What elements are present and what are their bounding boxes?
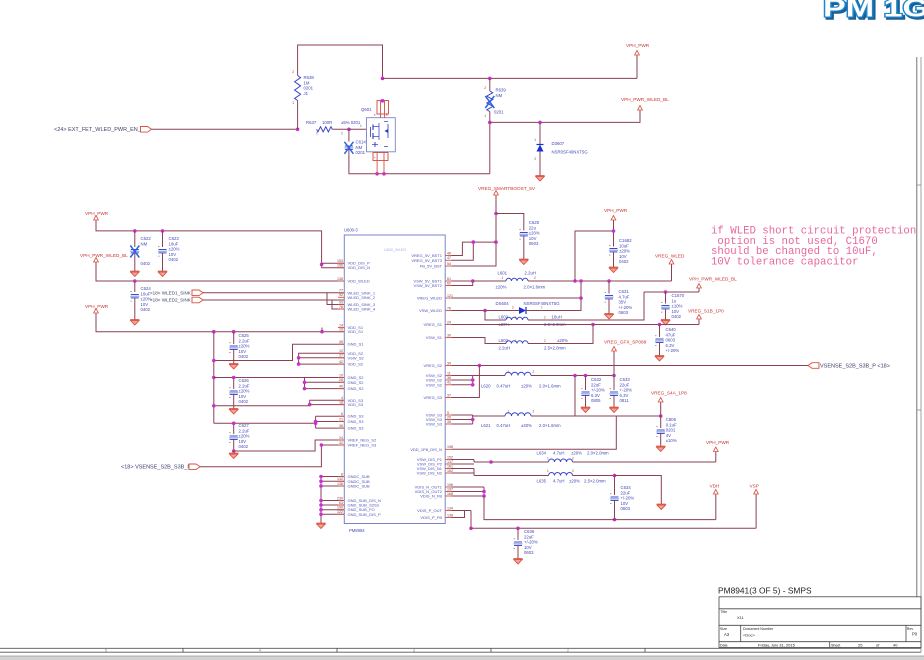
svg-text:12: 12 [339, 349, 343, 353]
svg-text:WLED_SINK_4: WLED_SINK_4 [348, 307, 376, 312]
wire VREG_S2 rail to VSENSE_S2B_S3B_P [452, 365, 809, 367]
wire S3 output rail 1P8 [575, 415, 661, 417]
junction [133, 279, 137, 283]
power VPH_PWR left1 [85, 211, 109, 222]
label C636 [524, 529, 538, 555]
wire VDD_DIS_P link [322, 262, 345, 264]
svg-text:1: 1 [502, 276, 504, 280]
port EXT_FET_WLED_PWR_EN_N [141, 127, 152, 133]
svg-text:VDH: VDH [710, 484, 720, 489]
junction [303, 387, 307, 391]
svg-text:C632: C632 [591, 377, 602, 382]
pin 18 VDD_S3 [338, 400, 364, 407]
svg-text:54: 54 [447, 262, 451, 266]
svg-text:2.2uH: 2.2uH [499, 346, 510, 351]
wire C627 to junction [233, 440, 235, 452]
inductor L620 [505, 372, 531, 375]
wire L635 output [573, 475, 615, 477]
svg-text:25: 25 [858, 643, 863, 648]
pin 136 VDD_WLED [337, 277, 370, 284]
svg-text:10V: 10V [239, 349, 247, 354]
svg-text:NM: NM [356, 145, 363, 150]
diode D3607 [537, 145, 544, 152]
inductor L621 [505, 413, 531, 416]
resistor R637 [317, 127, 333, 132]
svg-text:VREG_S1: VREG_S1 [424, 322, 443, 327]
svg-text:100R: 100R [322, 120, 332, 125]
pin 10 GND_S2 [338, 373, 364, 380]
svg-text:Friday, July 31, 2015: Friday, July 31, 2015 [758, 643, 796, 648]
svg-text:±20%: ±20% [239, 344, 250, 349]
label Q601 pad pin numbers [374, 113, 388, 160]
svg-text:NSR0SF40NXT5G: NSR0SF40NXT5G [552, 150, 589, 155]
junction [232, 376, 236, 380]
svg-text:4V: 4V [666, 433, 671, 438]
power VPH_PWR_WLED_BL right [689, 277, 737, 291]
junction [303, 381, 307, 385]
svg-text:L634: L634 [537, 451, 547, 456]
svg-text:GND_S3: GND_S3 [348, 414, 365, 419]
capacitor C806 [656, 427, 665, 437]
svg-text:L603: L603 [499, 338, 509, 343]
note WLED short circuit [711, 226, 916, 269]
wire D3607 cathode to ground [539, 152, 541, 175]
svg-text:C631: C631 [619, 289, 630, 294]
pin 36 GND_S3 [338, 424, 364, 431]
svg-text:27: 27 [339, 354, 343, 358]
wire 1P8 down to DIS [452, 416, 617, 449]
svg-text:U600-3: U600-3 [344, 228, 358, 233]
svg-text:C622: C622 [141, 236, 152, 241]
svg-text:VSW_WLED: VSW_WLED [419, 308, 442, 313]
svg-text:Sheet: Sheet [831, 644, 840, 648]
svg-text:±20%: ±20% [521, 423, 532, 428]
svg-text:+/-20%: +/-20% [621, 496, 635, 501]
ground L635 [657, 503, 666, 510]
svg-text:10V: 10V [529, 236, 537, 241]
svg-text:2: 2 [533, 370, 535, 374]
wire arrow stem [698, 290, 700, 292]
svg-text:R637: R637 [306, 120, 317, 125]
pin 47 VREG_5V_BST3 [411, 256, 451, 263]
pin 76 VSW_WLED [419, 306, 451, 313]
wire C626 to ground [233, 395, 235, 408]
wire C624 lead [134, 281, 136, 292]
C622 not mounted X [130, 246, 139, 258]
svg-text:4: 4 [259, 649, 261, 653]
label C632 [591, 377, 605, 403]
pin 54 FB_5V_BST [420, 262, 452, 269]
wire GND_S3 stubs [316, 416, 345, 428]
svg-text:138: 138 [447, 513, 453, 517]
inductor L635 [549, 473, 573, 476]
wire to L620 [473, 375, 505, 377]
svg-text:0402: 0402 [141, 307, 151, 312]
wire VREG_WLED arrow stem [671, 266, 673, 281]
svg-text:42: 42 [339, 360, 343, 364]
svg-text:X11: X11 [737, 615, 745, 620]
svg-text:PM 1G: PM 1G [823, 0, 924, 23]
svg-text:Size: Size [720, 627, 727, 631]
svg-text:0201: 0201 [494, 110, 504, 115]
wire L620 output [531, 375, 614, 377]
ground C627 [229, 452, 238, 459]
R639 not mounted X [485, 96, 494, 108]
svg-text:VDIS_P_FB: VDIS_P_FB [420, 515, 442, 520]
junction [488, 77, 492, 81]
ground C631 [604, 312, 613, 319]
wire GND_S2 row [214, 378, 344, 389]
wire C1670 lead [665, 292, 667, 304]
wire GND_S1 to S2 rows [214, 344, 344, 360]
svg-text:Document Number: Document Number [743, 627, 774, 631]
wire VREG_5V_BST3 link [452, 242, 474, 260]
svg-text:4.7uF: 4.7uF [619, 294, 630, 299]
wire VDH rail [484, 496, 716, 520]
svg-text:18: 18 [339, 400, 343, 404]
pin 168 VDIS_N_FB [420, 492, 453, 499]
svg-text:4.7uH: 4.7uH [553, 479, 564, 484]
svg-text:<Doc>: <Doc> [743, 633, 755, 638]
svg-text:1: 1 [508, 370, 510, 374]
svg-text:35: 35 [447, 420, 451, 424]
wire C640 to ground [659, 343, 661, 355]
ground C806 [656, 445, 665, 452]
junction [573, 374, 577, 378]
wire VDD_S3 row [214, 400, 344, 406]
svg-text:2.5×2.0mm: 2.5×2.0mm [584, 479, 606, 484]
svg-text:76: 76 [447, 306, 451, 310]
junction [658, 323, 662, 327]
wire VREG_5V_BST1 link [452, 242, 497, 255]
sheet right border outer line [920, 57, 922, 652]
pin 162 VSW_DIS_N2 [417, 469, 453, 476]
pin 41 VSW_S2 [426, 381, 452, 388]
capacitor C628 [519, 229, 528, 239]
junction [612, 229, 616, 233]
junction [375, 172, 379, 176]
svg-text:VREG_S2: VREG_S2 [424, 363, 443, 368]
Q601 drain pad rect [377, 101, 389, 115]
svg-text:+/-20%: +/-20% [619, 305, 633, 310]
pin 63 GND_SUB_S2S3 [338, 501, 380, 508]
svg-text:<24> EXT_FET_WLED_PWR_EN_N: <24> EXT_FET_WLED_PWR_EN_N [54, 127, 145, 133]
port VSENSE_S2B_S3B_N [189, 464, 200, 470]
svg-text:VDIS_P_OUT: VDIS_P_OUT [417, 508, 442, 513]
wire VSW_S1 to L603 [452, 338, 507, 344]
wire C632 lead [585, 376, 587, 391]
svg-text:L621: L621 [481, 423, 491, 428]
capacitor C633 [610, 389, 619, 399]
svg-text:±10%: ±10% [672, 304, 683, 309]
svg-text:+/-20%: +/-20% [591, 388, 605, 393]
power VPH_PWR_WLED_BL top [621, 97, 669, 112]
ground C622 [130, 270, 139, 277]
svg-text:+/-20%: +/-20% [666, 348, 680, 353]
svg-text:0603: 0603 [524, 550, 534, 555]
label C622 [141, 236, 152, 246]
junction [319, 484, 323, 488]
svg-text:22uF: 22uF [591, 382, 601, 387]
junction [472, 240, 476, 244]
svg-text:1: 1 [547, 469, 549, 473]
svg-text:±20%: ±20% [239, 389, 250, 394]
border tick [490, 648, 492, 652]
wire VREG_GFX stem [613, 353, 615, 376]
junction [319, 508, 323, 512]
wire R637 right [332, 128, 349, 130]
svg-text:GND_S2: GND_S2 [348, 386, 365, 391]
svg-text:2.0×2.0mm: 2.0×2.0mm [587, 451, 609, 456]
svg-text:30: 30 [447, 333, 451, 337]
junction [212, 359, 216, 363]
pin 152 VSW_DIS_P1 [417, 455, 453, 462]
label C623 [169, 236, 180, 262]
svg-text:10V: 10V [239, 394, 247, 399]
svg-text:+/-20%: +/-20% [524, 540, 538, 545]
junction [573, 279, 577, 283]
wire C624 to ground [134, 298, 136, 318]
power VPH_PWR left2 [85, 304, 109, 315]
junction [584, 374, 588, 378]
wire C623 lead [162, 231, 164, 247]
label L620 [481, 370, 561, 389]
svg-text:VPH_PWR: VPH_PWR [626, 43, 650, 48]
svg-text:10uH: 10uH [552, 315, 562, 320]
svg-text:0402: 0402 [672, 314, 682, 319]
wire VSW_S3 group [452, 415, 473, 424]
svg-text:PM8994: PM8994 [349, 528, 365, 533]
junction [478, 364, 482, 368]
svg-text:46: 46 [447, 251, 451, 255]
svg-text:39: 39 [447, 361, 451, 365]
wire L621 output [531, 415, 575, 417]
wire VDIS_P group [452, 511, 472, 529]
IC U600-3 body [344, 235, 445, 524]
pin 42 VDD_S2 [338, 360, 364, 367]
svg-text:92: 92 [339, 293, 343, 297]
svg-text:2.0×1.6mm: 2.0×1.6mm [539, 423, 561, 428]
label C626 [239, 378, 250, 404]
pin 230 GND_SUB_DIS_N [337, 496, 381, 503]
svg-text:C628: C628 [529, 220, 540, 225]
svg-text:93: 93 [339, 300, 343, 304]
pin 29 VREG_S1 [424, 320, 452, 327]
svg-text:10V: 10V [169, 252, 177, 257]
svg-text:2: 2 [484, 86, 486, 90]
wire VSW_5V_BST2 join [452, 281, 473, 286]
wire VSENSE_N to VREF_NEG_S3 [200, 445, 344, 467]
ground GND_SUB [316, 522, 325, 529]
svg-text:DS604: DS604 [496, 301, 510, 306]
svg-text:0603: 0603 [529, 241, 539, 246]
svg-text:GND_S2: GND_S2 [348, 380, 365, 385]
label R639 [484, 86, 506, 118]
svg-text:Q601: Q601 [361, 107, 372, 112]
svg-text:D3607: D3607 [552, 141, 565, 146]
pin 32 VREF_NEG_S3 [338, 441, 377, 448]
svg-text:32: 32 [339, 441, 343, 445]
svg-text:22uF: 22uF [620, 382, 630, 387]
pin 137 VSW_DIS_P2 [417, 460, 453, 467]
svg-text:2: 2 [292, 70, 294, 74]
svg-text:5: 5 [447, 411, 449, 415]
svg-text:±20%: ±20% [557, 338, 568, 343]
svg-text:10uF: 10uF [169, 241, 179, 246]
svg-text:VREG_WLED: VREG_WLED [655, 254, 685, 259]
svg-text:C614: C614 [356, 140, 367, 145]
wire L602 to VPH_PWR_WLED_BL [528, 292, 644, 320]
svg-text:A3: A3 [724, 632, 730, 637]
capacitor C631 [605, 292, 614, 302]
label C1670 [672, 293, 685, 319]
ground C633 [609, 406, 618, 413]
svg-text:156: 156 [337, 264, 343, 268]
application gray strip [0, 656, 924, 660]
svg-text:L635: L635 [537, 479, 547, 484]
pin 132 GNDC_SUB [337, 477, 370, 484]
capacitor C625 [229, 343, 238, 353]
wire to L634 [474, 461, 491, 463]
label C628 [529, 220, 540, 246]
power VPH_PWR mid [604, 208, 628, 222]
svg-text:190: 190 [337, 506, 343, 510]
junction [232, 449, 236, 453]
wire C1682 to ground [613, 252, 615, 266]
svg-text:C1670: C1670 [672, 293, 685, 298]
wire VSW_WLED pin 76 [452, 310, 486, 312]
label D3607 [534, 138, 588, 161]
sheet bottom border outer line [0, 651, 921, 653]
svg-text:U600_WLED: U600_WLED [384, 248, 406, 252]
svg-text:1: 1 [484, 114, 486, 118]
wire C623 to ground [162, 253, 164, 270]
title block table [719, 597, 921, 648]
junction [664, 290, 668, 294]
junction [469, 527, 473, 531]
wire C636 to ground [517, 546, 519, 558]
svg-text:1: 1 [534, 138, 536, 142]
svg-text:GND_SUB_DIS_P: GND_SUB_DIS_P [348, 512, 381, 517]
svg-text:1: 1 [508, 410, 510, 414]
wire VPH to VDD_S1 row [96, 315, 344, 332]
wire C633 lead [613, 376, 615, 391]
wire VREG_WLED rail [528, 280, 672, 282]
svg-text:GND_S3: GND_S3 [348, 419, 365, 424]
svg-text:10: 10 [339, 373, 343, 377]
junction [319, 480, 323, 484]
pin 36 VSW_S2 [426, 376, 452, 383]
wire VPH_PWR_WLED_BL rail [644, 291, 699, 293]
wire L603 out [528, 325, 593, 344]
svg-text:VSW_S2: VSW_S2 [426, 382, 443, 387]
capacitor C623 [158, 246, 167, 256]
svg-text:C625: C625 [239, 333, 250, 338]
svg-text:VSW_S3: VSW_S3 [426, 422, 443, 427]
svg-text:0201: 0201 [666, 428, 676, 433]
ground C636 [513, 557, 522, 564]
wire to L601 [473, 280, 506, 282]
svg-text:10V: 10V [672, 309, 680, 314]
wire C636 lead [517, 528, 519, 540]
wire VSW_5V_BST1 to L601 [452, 280, 473, 282]
svg-text:0201: 0201 [356, 150, 366, 155]
svg-text:0.47uH: 0.47uH [497, 384, 511, 389]
junction [212, 376, 216, 380]
junction [297, 356, 301, 360]
power VSP [750, 484, 759, 497]
pin 46 VREG_5V_BST1 [411, 251, 451, 258]
svg-text:6.3V: 6.3V [591, 393, 600, 398]
junction [612, 374, 616, 378]
svg-text:134: 134 [447, 506, 453, 510]
svg-text:L602: L602 [499, 315, 509, 320]
svg-text:VREG_S1B_1P0: VREG_S1B_1P0 [688, 309, 724, 314]
junction [212, 330, 216, 334]
pin 35 VSW_S3 [426, 420, 452, 427]
svg-text:20: 20 [447, 415, 451, 419]
resistor R639 (NM) [487, 91, 493, 112]
svg-text:63: 63 [339, 501, 343, 505]
ground C625 [229, 362, 238, 369]
junction [319, 499, 323, 503]
svg-text:±20%: ±20% [569, 479, 580, 484]
wire to L621 [473, 415, 505, 416]
ground C640 [655, 354, 664, 361]
svg-text:C636: C636 [524, 529, 535, 534]
pin 136 GNDC_SUB [337, 482, 370, 489]
svg-text:VSW_S1: VSW_S1 [426, 335, 443, 340]
wire S3 to S2 tie [574, 376, 576, 417]
wire to VPH_PWR_WLED_BL [490, 112, 640, 122]
svg-text:21: 21 [339, 417, 343, 421]
ground C1682 [609, 266, 618, 273]
svg-text:61: 61 [447, 277, 451, 281]
wire drain rail to VPH_PWR [383, 77, 638, 79]
svg-text:VSW_S2: VSW_S2 [348, 355, 365, 360]
label C625 [239, 333, 250, 359]
capacitor C622 (NM) [130, 246, 139, 256]
wire C631 to ground [608, 299, 610, 312]
wire L601 out to VPH [575, 231, 614, 281]
wire VREF_NEG_S2 to C627 junction [234, 440, 345, 451]
svg-text:R639: R639 [496, 88, 507, 93]
svg-text:±10%: ±10% [666, 438, 677, 443]
wire GND_S2 stubs [305, 378, 345, 383]
svg-text:L601: L601 [498, 271, 508, 276]
power VPH_PWR top right [626, 43, 650, 57]
label L603 [499, 338, 569, 351]
junction [320, 443, 324, 447]
pin 40 GND_S2 [338, 384, 364, 391]
label C614 [356, 140, 367, 156]
svg-text:77: 77 [339, 289, 343, 293]
wire C622 to ground [134, 253, 136, 270]
wire R638 bottom [297, 101, 299, 130]
svg-text:0805: 0805 [591, 398, 601, 403]
wire D3607 anode [539, 122, 541, 144]
svg-text:22uF: 22uF [524, 534, 534, 539]
wire R639 top [489, 78, 491, 91]
svg-text:197: 197 [447, 487, 453, 491]
junction [538, 121, 542, 125]
svg-text:0603: 0603 [619, 310, 629, 315]
svg-text:0603: 0603 [666, 338, 676, 343]
wire VPH arrow stem [636, 57, 638, 78]
pin 39 VREG_S2 [424, 361, 452, 368]
svg-text:8: 8 [341, 472, 343, 476]
label C640 [666, 327, 680, 353]
